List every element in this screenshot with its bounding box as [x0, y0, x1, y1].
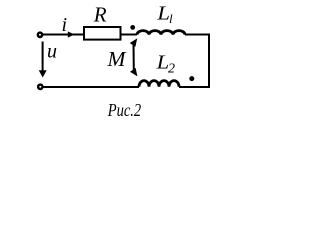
svg-text:l: l: [169, 11, 173, 26]
svg-text:Рис.2: Рис.2: [107, 100, 141, 120]
svg-text:M: M: [107, 47, 127, 71]
svg-text:R: R: [93, 3, 107, 27]
svg-text:L: L: [156, 3, 170, 24]
svg-text:2: 2: [168, 62, 175, 77]
svg-text:u: u: [47, 41, 57, 63]
svg-text:i: i: [62, 14, 68, 36]
